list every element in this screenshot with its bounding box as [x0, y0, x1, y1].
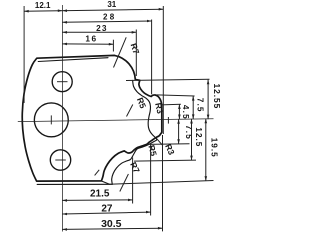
arrow 7.5u bottom [192, 114, 195, 119]
svg-text:R5: R5 [146, 144, 159, 157]
ext line bottom edge extension [110, 181, 214, 185]
arrow 12.5 bottom [190, 156, 193, 161]
svg-text:21.5: 21.5 [90, 188, 110, 199]
arrow 7.5u top [192, 96, 195, 101]
arrow 27 right [146, 211, 151, 214]
arrow 21.5 right [128, 199, 133, 202]
hole centre large circle [34, 103, 68, 137]
arrow 28 right [147, 20, 152, 23]
arrow 12.55 top [207, 80, 210, 85]
svg-text:R3: R3 [163, 142, 177, 156]
dim chain line 12.1 / 31 [24, 9, 163, 11]
horizontal centre line [18, 119, 214, 122]
arrow 4.5 bottom [178, 115, 181, 120]
ext line 27 right [150, 143, 152, 216]
arrow 12.55 bottom [207, 115, 210, 120]
svg-text:19.5: 19.5 [210, 138, 219, 158]
vertical centre line of holes [61, 5, 63, 232]
arrow 7.5l top [177, 119, 180, 124]
leader R3 lower [156, 138, 163, 145]
arrow 31 left [62, 9, 67, 12]
dim line 7.5 lower [178, 119, 180, 144]
svg-text:4.5: 4.5 [181, 105, 190, 120]
dim line 27 [62, 212, 150, 214]
dim line 7.5 upper [192, 96, 194, 119]
arrow 4.5 top [178, 104, 181, 109]
svg-text:31: 31 [107, 0, 116, 9]
dim line 21.5 [62, 199, 132, 202]
dim line 12.55 [207, 80, 209, 120]
ext line for 4.5 [161, 103, 181, 106]
ext line for 7.5 upper [157, 95, 195, 96]
ext line for 12.55 [126, 79, 210, 80]
arrow 12.5 top [190, 119, 193, 124]
svg-text:R7: R7 [128, 160, 142, 174]
svg-text:23: 23 [96, 23, 108, 33]
svg-text:27: 27 [101, 204, 113, 215]
svg-text:12.1: 12.1 [35, 1, 51, 10]
arrow 16 right [109, 43, 114, 46]
dim line 16 [62, 43, 113, 45]
bottom edge bevel line [37, 183, 112, 185]
arrow 23 right [132, 31, 137, 34]
top edge bevel line [38, 58, 108, 62]
ext line for 7.5 lower [147, 143, 190, 146]
arrow 30.5 right [158, 227, 163, 230]
dim line 12.5 [191, 119, 193, 160]
dim line 28 [62, 21, 151, 22]
arrow 7.5l bottom [177, 139, 180, 144]
bottom edge right slope join [102, 181, 110, 184]
dim line 4.5 [178, 104, 180, 119]
ext line 21.5 right [132, 158, 134, 204]
centre line tick right [167, 117, 169, 124]
arrow 27 left [62, 213, 67, 216]
dim line 23 [62, 31, 136, 33]
arrow 19.5 top [205, 119, 208, 124]
svg-text:16: 16 [85, 34, 97, 44]
svg-text:2 8: 2 8 [103, 13, 115, 22]
leader R7 bottom [120, 174, 129, 192]
arrow 16 left [62, 43, 67, 46]
arrow 30.5 left [62, 228, 67, 231]
ext line 16 right [112, 40, 114, 52]
arrow 23 left [62, 31, 67, 34]
dim line 19.5 [205, 119, 207, 181]
inner bevel line full profile [112, 80, 157, 184]
leader R7 top [114, 37, 127, 67]
arrow 12.1 right [58, 9, 63, 12]
svg-text:12.5: 12.5 [194, 127, 203, 147]
svg-text:30.5: 30.5 [101, 218, 122, 230]
ext line left x24 [23, 6, 25, 103]
leader R7 bottom short diagonal [95, 170, 100, 176]
hole bottom centre tick [55, 159, 66, 161]
dim line 30.5 [62, 228, 162, 229]
arrow 12.1 left [24, 10, 29, 13]
ext line 23 right [135, 30, 137, 77]
ext line 28 right [151, 20, 153, 95]
svg-text:R7: R7 [129, 42, 142, 56]
arrow 31 right [159, 8, 164, 11]
arrow 21.5 left [62, 199, 67, 202]
svg-text:12.55: 12.55 [212, 84, 222, 110]
leader R5 upper [127, 105, 133, 117]
hole top small circle [52, 72, 72, 92]
hole centre vertical tick [50, 115, 52, 124]
arrow 28 left [62, 21, 67, 24]
ext line for 12.5 [134, 160, 196, 161]
arrow 19.5 bottom [205, 176, 208, 181]
svg-text:7.5: 7.5 [195, 98, 204, 113]
ext line 30.5 right [162, 135, 164, 231]
hole bottom small circle [50, 150, 70, 170]
ext line 31 right x163 [162, 6, 164, 134]
hole top centre tick [57, 81, 68, 83]
plate body outline [22, 55, 162, 181]
